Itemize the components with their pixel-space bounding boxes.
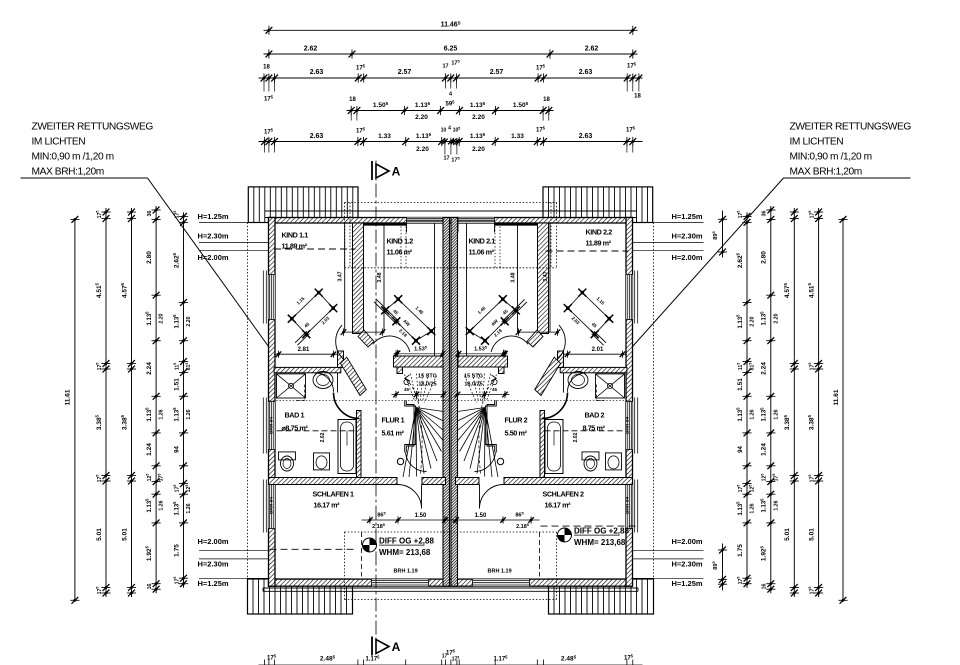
window left wall [269,275,276,320]
bottom dimension chain [259,664,643,665]
svg-text:2.24: 2.24 [761,362,768,375]
svg-text:H=1.25m: H=1.25m [672,579,703,588]
window right wall [626,484,633,529]
svg-text:2.20: 2.20 [186,316,192,326]
svg-text:KIND 1.1: KIND 1.1 [282,231,309,240]
dotted knee-wall line upper [384,267,518,269]
vertical dimension chain C L [131,208,133,597]
hidden roof edge dotted right [653,223,655,579]
svg-text:2.01: 2.01 [592,347,604,353]
section marker A [371,161,373,180]
svg-text:MIN:0,90 m /1,20 m: MIN:0,90 m /1,20 m [32,152,114,163]
svg-text:IM LICHTEN: IM LICHTEN [790,137,844,148]
dormer window top-right house [458,218,495,224]
svg-text:1.26: 1.26 [186,503,192,513]
diagonal dim chain KIND 2.1 [582,293,609,319]
svg-text:18,0/25: 18,0/25 [464,382,482,388]
svg-text:SCHLAFEN 2: SCHLAFEN 2 [543,490,585,499]
curved wall FLUR 2 [542,393,568,419]
svg-text:17: 17 [442,654,448,660]
svg-text:3.48: 3.48 [377,272,383,282]
vertical dimension chain E L [183,212,185,587]
vertical dimension chain C R [793,208,795,597]
svg-text:1.26: 1.26 [750,409,756,419]
svg-text:FLUR 1: FLUR 1 [382,416,405,425]
level marker DIFF OG left [363,538,377,552]
svg-text:H=1.25m: H=1.25m [672,212,703,221]
shower BAD 2 [596,374,625,398]
stair upper treads house 1 [405,375,415,401]
svg-text:11.61: 11.61 [65,389,72,405]
toilet BAD 1 [279,452,296,460]
svg-text:1.24: 1.24 [761,443,768,456]
washbasin BAD 1 [313,372,333,389]
svg-text:3.48: 3.48 [511,272,517,282]
svg-text:11.06 m²: 11.06 m² [469,248,495,257]
hidden roof edge dotted left [247,223,249,579]
svg-text:2.20: 2.20 [415,114,428,121]
svg-text:4: 4 [448,126,451,132]
dormer reveal lines house 1 [406,223,408,233]
svg-text:1.33: 1.33 [378,133,391,140]
svg-text:2.63: 2.63 [579,133,593,140]
svg-text:10: 10 [441,128,447,134]
dimension chain total 11.46-5 [264,29,638,31]
svg-text:H=2.30m: H=2.30m [672,232,703,241]
door arcs hall house 2 [535,357,561,395]
vertical dimension chain 11.61 R [842,219,844,600]
vertical dimension chain E R [746,212,748,587]
wall BAD 2 top [560,367,627,372]
wall BAD 1 top [274,367,341,372]
svg-text:5.01: 5.01 [121,528,128,541]
svg-text:2.02: 2.02 [320,432,326,442]
dashed inner rect bottom [361,532,363,577]
stairwell edge house 2 [485,400,496,452]
svg-text:5.01: 5.01 [784,528,791,541]
svg-text:5.01: 5.01 [96,528,103,541]
dashed ceiling-height lines [274,248,356,250]
svg-text:1.24: 1.24 [146,443,153,456]
svg-text:94: 94 [738,446,744,453]
door SCHLAFEN 2 [480,485,504,509]
svg-text:ZWEITER RETTUNGSWEG: ZWEITER RETTUNGSWEG [32,122,154,133]
shower dashed mark 1 [304,385,306,401]
svg-text:BRH 94: BRH 94 [625,417,631,434]
svg-text:2.20: 2.20 [773,313,779,323]
svg-text:17: 17 [442,64,448,70]
wall BAD 2 right [558,351,564,367]
wall SCHLAFEN 2 top [504,478,633,485]
vertical dimension chain D R [770,206,772,593]
svg-text:18: 18 [263,65,270,71]
svg-text:18: 18 [543,97,550,103]
stair dim house 1 [392,394,446,396]
walk line arrow house 2 [492,375,497,379]
svg-text:1.50: 1.50 [415,513,427,519]
dim 1.53-5 house 1 [394,353,445,355]
svg-text:5.61 m²: 5.61 m² [382,429,405,438]
vertical dim 3.47 house 2 [549,223,551,332]
outer wall right [626,218,633,587]
hall dim house 2 [519,331,558,333]
svg-text:DIFF OG +2,88: DIFF OG +2,88 [574,527,629,536]
svg-text:2.63: 2.63 [310,69,324,76]
dim 2.81 house 1 [274,353,337,355]
svg-text:2.63: 2.63 [579,69,593,76]
svg-text:1.26: 1.26 [750,503,756,513]
svg-text:WHM= 213,68: WHM= 213,68 [379,548,431,557]
svg-text:SCHLAFEN 1: SCHLAFEN 1 [313,490,355,499]
svg-text:2.80: 2.80 [146,251,153,264]
door SCHLAFEN 1 [398,485,422,509]
vertical dim 3.48 house 1 [383,223,385,333]
svg-text:WHM= 213,68: WHM= 213,68 [574,538,626,547]
dormer jamb dotted lines house 2 [499,223,501,268]
svg-text:5.50 m²: 5.50 m² [505,429,528,438]
roof overhang hatched top-left [248,187,358,223]
svg-text:36: 36 [762,211,768,217]
svg-text:3.47: 3.47 [543,271,549,281]
svg-text:1.26: 1.26 [773,500,779,510]
dormer jamb dotted lines house 1 [400,223,402,268]
svg-text:16: 16 [762,584,768,590]
wall between KIND 1 rooms [353,223,364,334]
window right wall [626,402,633,450]
wall between KIND 2 rooms [538,223,549,334]
svg-text:2.57: 2.57 [398,69,412,76]
svg-text:1.26: 1.26 [773,409,779,419]
svg-text:A: A [392,165,401,179]
svg-text:2.20: 2.20 [472,146,485,153]
vertical dimension chain B L [105,208,107,597]
svg-text:2.20: 2.20 [472,114,485,121]
stair fan house 2 [458,408,486,412]
stair fan house 1 [416,408,444,412]
door BAD 1 [315,373,334,392]
leader line left [148,178,269,347]
section line vertical [375,161,377,653]
svg-text:2.80: 2.80 [761,251,768,264]
svg-text:KIND 2.1: KIND 2.1 [469,237,496,246]
shower dashed mark 2 [596,385,598,401]
svg-text:3.47: 3.47 [338,271,344,281]
svg-text:2.57: 2.57 [490,69,504,76]
vertical dim 3.48 house 2 [517,223,519,333]
mini dim 89-5 right bottom [722,544,724,591]
outer wall top [269,218,633,224]
washbasin BAD 2 [568,372,588,389]
svg-text:15 STG: 15 STG [418,374,437,380]
dotted dormer rect bottom [345,531,557,533]
dormer window top-left house [407,218,444,224]
wall SCHLAFEN 1 top [269,478,398,485]
svg-text:2.81: 2.81 [298,347,310,353]
roof overhang hatched bottom-right [549,579,654,614]
svg-text:1.51: 1.51 [737,378,744,391]
stairwell edge house 1 [405,400,416,452]
outer wall left [269,218,276,587]
section marker A [371,637,373,656]
svg-text:H=2.00m: H=2.00m [672,537,703,546]
svg-text:H=2.00m: H=2.00m [198,537,229,546]
svg-text:18: 18 [349,97,356,103]
svg-text:36: 36 [147,211,153,217]
level marker DIFF OG right [558,528,572,542]
outer wall bottom [269,579,633,586]
svg-text:1.75: 1.75 [173,544,180,557]
window left wall [269,402,276,450]
wall bathtub niche 2 [540,411,545,480]
window right wall [626,275,633,320]
dim line SCHLAFEN 1 [362,519,457,521]
bathtub house 1 [338,420,356,474]
lintel KIND 1.2 [364,223,407,225]
svg-text:1.26: 1.26 [159,409,165,419]
diagonal dim chain KIND 1.2 [398,299,431,331]
svg-text:6.25: 6.25 [444,46,458,53]
wall KIND 1.2 / stair [394,356,444,367]
wall KIND 2.2 / stair [458,356,508,367]
vertical dimension chain B R [818,208,820,597]
dormer reveal lines house 2 [494,223,496,233]
dim 2.81 house 2 [564,353,627,355]
svg-text:2.62: 2.62 [585,46,599,53]
svg-text:94: 94 [174,446,180,453]
svg-text:2.02: 2.02 [573,432,579,442]
vertical dimension chain 11.61 L [74,219,76,600]
dotted dormer rect top [345,202,557,204]
dotted knee-wall line mid [270,400,632,402]
mini dim 89-5 right top [722,211,724,258]
dimension chain 18/1.50-5/1.13-5/59-5/1.13-5/1.50-5/18 with 2.20 [347,110,554,112]
roof overhang hatched top-right [543,187,653,223]
svg-text:15 STG: 15 STG [464,374,483,380]
svg-text:1.33: 1.33 [511,133,524,140]
svg-text:18,0/25: 18,0/25 [418,382,436,388]
furring line KIND 2.1 [466,223,468,365]
svg-text:BRH 94: BRH 94 [269,417,275,434]
newel circle house 1 [397,458,403,464]
sink BAD 1 [314,453,330,470]
svg-text:45: 45 [492,387,498,392]
svg-text:2.20: 2.20 [416,146,429,153]
dimension chain 17-5/2.63/17-5/1.33/1.13-5/10-4-10-5/1.13-5/1.33/17-5/2.63/17-5 [259,141,643,143]
svg-text:11.89 m²: 11.89 m² [586,239,612,248]
bathtub house 2 [545,420,563,474]
diagonal dim chain KIND 1.1 [292,293,319,319]
hall dim house 1 [344,331,383,333]
party wall [443,218,450,587]
wall bathtub niche 1 [357,411,362,480]
vertical dimension chain D L [155,206,157,593]
svg-text:1.26: 1.26 [159,500,165,510]
svg-text:1.51: 1.51 [173,378,180,391]
newel circle house 2 [497,458,503,464]
svg-text:H=2.30m: H=2.30m [672,560,703,569]
svg-text:2.62: 2.62 [304,46,318,53]
shower BAD 1 [277,374,306,398]
svg-text:1.26: 1.26 [186,409,192,419]
dim line SCHLAFEN 2 [445,519,540,521]
stair upper treads house 2 [487,375,497,401]
svg-text:DIFF OG +2,88: DIFF OG +2,88 [379,537,434,546]
door BAD 2 [568,373,587,392]
wall BAD 1 right [338,351,344,367]
svg-text:2.20: 2.20 [750,316,756,326]
svg-text:1.50: 1.50 [475,513,487,519]
diagonal dim chain KIND 2.2 [470,299,503,331]
svg-text:16.17 m²: 16.17 m² [314,501,341,510]
svg-text:1.75: 1.75 [737,544,744,557]
window left wall [269,484,276,529]
lintel KIND 2.1 [495,223,538,225]
toilet BAD 2 [582,452,599,460]
curved wall FLUR 1 [334,393,360,419]
svg-text:A: A [392,640,401,654]
dimension chain 18/2.63/17-5/2.57/17/17-5/2.57/17-5/2.63/17-5 [259,77,643,79]
eaves lines top [265,210,637,212]
svg-text:11.465: 11.465 [441,20,461,28]
svg-text:KIND 1.2: KIND 1.2 [387,237,414,246]
stair dim house 2 [456,394,510,396]
svg-text:5.01: 5.01 [808,528,815,541]
dim 1.53-5 house 2 [457,353,508,355]
svg-text:KIND 2.2: KIND 2.2 [586,228,613,237]
svg-text:BRH 1.19: BRH 1.19 [488,569,512,575]
dimension chain 2.62 / 6.25 / 2.62 [264,53,638,55]
eaves lines bottom [263,587,638,589]
door arcs hall house 1 [341,357,367,395]
svg-text:H=1.25m: H=1.25m [198,579,229,588]
svg-text:BAD 1: BAD 1 [285,411,305,420]
svg-text:BRH 94: BRH 94 [269,497,275,514]
furring line KIND 1.2 [434,223,436,365]
vertical dim 3.47 house 1 [344,223,346,332]
svg-text:H=2.30m: H=2.30m [198,232,229,241]
sink BAD 2 [606,453,622,470]
window bottom-left house [372,579,429,586]
svg-text:MAX BRH:1,20m: MAX BRH:1,20m [790,167,862,178]
svg-text:ZWEITER RETTUNGSWEG: ZWEITER RETTUNGSWEG [790,122,912,133]
svg-text:H=2.00m: H=2.00m [198,253,229,262]
svg-text:2.20: 2.20 [159,313,165,323]
svg-text:BAD 2: BAD 2 [585,411,605,420]
svg-text:H=2.30m: H=2.30m [198,560,229,569]
svg-text:11.61: 11.61 [833,389,840,405]
svg-text:FLUR 2: FLUR 2 [505,416,528,425]
svg-text:17: 17 [443,156,449,162]
svg-text:BRH 94: BRH 94 [625,497,631,514]
svg-text:11.06 m²: 11.06 m² [387,248,413,257]
svg-text:H=1.25m: H=1.25m [198,212,229,221]
roof overhang hatched bottom-left [248,579,353,614]
svg-text:2.63: 2.63 [310,133,324,140]
walk line arrow house 1 [405,375,410,379]
svg-text:18: 18 [634,94,641,100]
svg-text:16.17 m²: 16.17 m² [545,501,572,510]
svg-text:BRH 1.19: BRH 1.19 [394,569,418,575]
leader line right [633,178,784,347]
svg-text:2.24: 2.24 [146,362,153,375]
svg-text:H=2.00m: H=2.00m [672,253,703,262]
svg-text:MIN:0,90 m /1,20 m: MIN:0,90 m /1,20 m [790,152,872,163]
svg-text:16: 16 [147,584,153,590]
svg-text:45: 45 [404,387,410,392]
svg-text:MAX BRH:1,20m: MAX BRH:1,20m [32,167,104,178]
window bottom-right house [473,579,530,586]
svg-text:IM LICHTEN: IM LICHTEN [32,137,86,148]
